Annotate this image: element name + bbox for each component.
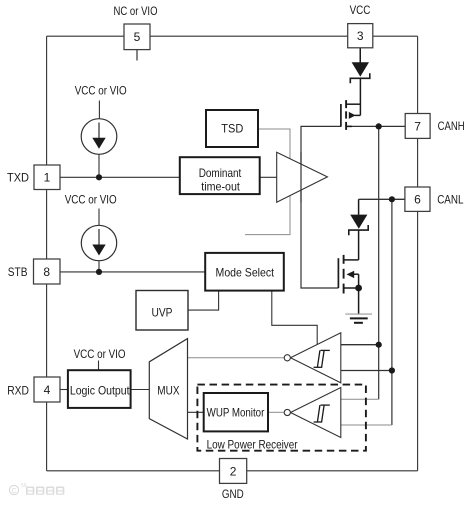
- svg-text:TSD: TSD: [221, 122, 243, 136]
- svg-text:CANL: CANL: [437, 192, 464, 206]
- svg-text:3: 3: [357, 29, 364, 43]
- svg-text:VCC or VIO: VCC or VIO: [75, 84, 127, 98]
- svg-text:Low Power Receiver: Low Power Receiver: [207, 437, 298, 451]
- svg-text:4: 4: [44, 383, 51, 397]
- svg-text:UVP: UVP: [152, 306, 173, 320]
- svg-text:GND: GND: [222, 487, 244, 501]
- svg-text:NC or VIO: NC or VIO: [114, 4, 158, 18]
- svg-text:1: 1: [44, 171, 51, 185]
- svg-text:8: 8: [43, 265, 50, 279]
- svg-text:VCC: VCC: [350, 3, 371, 17]
- svg-text:VCC or VIO: VCC or VIO: [65, 192, 117, 206]
- svg-text:STB: STB: [8, 265, 28, 279]
- svg-text:Logic Output: Logic Output: [70, 383, 130, 397]
- svg-text:59: 59: [21, 483, 27, 489]
- svg-text:Mode Select: Mode Select: [216, 266, 275, 280]
- svg-text:Dominant: Dominant: [199, 166, 242, 180]
- svg-text:RXD: RXD: [7, 383, 29, 397]
- svg-text:5: 5: [134, 30, 141, 44]
- svg-text:7: 7: [414, 119, 421, 133]
- svg-text:time-out: time-out: [201, 180, 240, 194]
- svg-text:CANH: CANH: [438, 119, 465, 133]
- svg-text:6: 6: [414, 193, 421, 207]
- svg-text:2: 2: [230, 464, 237, 478]
- svg-text:WUP Monitor: WUP Monitor: [207, 405, 265, 419]
- svg-text:VCC or VIO: VCC or VIO: [74, 347, 126, 361]
- svg-text:C: C: [11, 488, 16, 495]
- svg-text:TXD: TXD: [7, 170, 29, 184]
- svg-text:MUX: MUX: [157, 384, 179, 398]
